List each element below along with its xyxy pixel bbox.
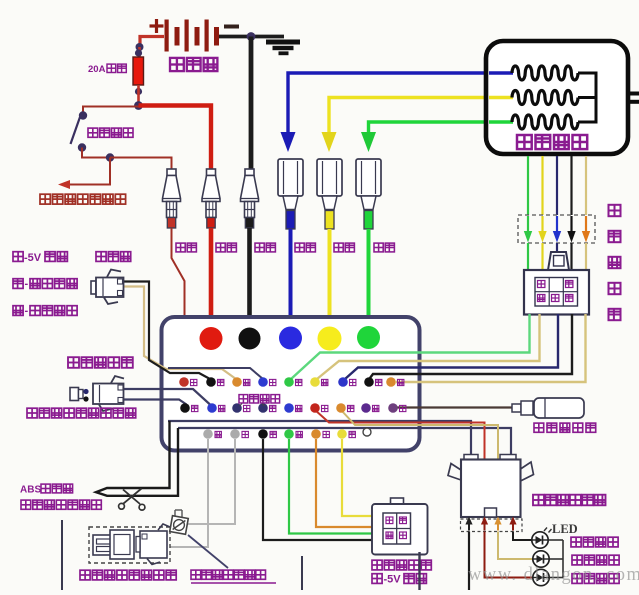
wire thick red J2 to controller bbox=[209, 228, 214, 330]
wire phase green bbox=[369, 122, 514, 133]
wire yellow row3 to 4pin bbox=[342, 439, 372, 516]
wire stray bottom-left bbox=[61, 520, 63, 590]
wire thick red to connector2 bbox=[139, 106, 212, 171]
wire phase blue bbox=[288, 73, 513, 133]
connector J4 blue spade bbox=[278, 159, 303, 196]
wire blue J4 to controller bbox=[289, 229, 293, 330]
battery pack cells bbox=[165, 20, 169, 52]
arrow phase blue bbox=[281, 132, 296, 152]
ground symbol bbox=[266, 40, 300, 45]
wire navy bus B to meter bbox=[178, 428, 511, 459]
label J1 细红 bbox=[176, 243, 185, 252]
svg-text:LED: LED bbox=[552, 522, 578, 536]
arrow meter power bbox=[58, 180, 70, 189]
connector assist 助力线 bbox=[91, 281, 96, 294]
switch lock top terminal bbox=[79, 111, 87, 119]
switch lock bottom terminal bbox=[78, 143, 86, 151]
connector 4-pin 调速刹车线 bbox=[391, 498, 404, 505]
node big yellow terminal bbox=[318, 327, 342, 351]
wire gray row3 pin2 down bbox=[188, 439, 235, 524]
motor winding common bracket bbox=[578, 73, 596, 122]
motor M1 case 无刷电机 bbox=[486, 41, 628, 154]
wire battery positive bbox=[140, 37, 164, 48]
label 调速刹车线 bbox=[372, 560, 382, 570]
meter pin arrow orange bbox=[497, 523, 499, 531]
node battery-negative junction bbox=[247, 32, 256, 41]
label 速度仪表线 bbox=[534, 423, 544, 432]
wire motor hall bundle bbox=[527, 156, 529, 215]
label 剪断为普通刹车 bbox=[21, 500, 31, 509]
wire green J6 to controller bbox=[367, 229, 371, 330]
connector J2 thick-red bullet bbox=[207, 169, 216, 176]
wire hall orange return bbox=[396, 314, 586, 382]
meter pin arrow darkred2 bbox=[512, 523, 514, 531]
wire meter darkred to LED3 bbox=[485, 532, 533, 578]
wire ABS select loop bbox=[96, 421, 178, 496]
speed-limit plug right bbox=[140, 531, 167, 558]
wire hall blue return bbox=[345, 314, 558, 379]
label 橙-5V电源 bottom bbox=[372, 574, 382, 584]
label 对插时为限速有效 bbox=[80, 570, 90, 580]
4-pin pin labels bbox=[386, 517, 393, 524]
wire node to connector1 bbox=[110, 158, 172, 171]
svg-text:20A: 20A bbox=[88, 64, 106, 75]
label 仪表显示接头 bbox=[533, 495, 544, 506]
fuse 20A top terminal bbox=[135, 49, 142, 56]
meter pin arrow black bbox=[468, 523, 470, 531]
arrow phase green bbox=[361, 132, 376, 152]
label battery 电池组 bbox=[170, 58, 184, 71]
wire blue-stub row1 bbox=[168, 368, 263, 379]
label J2 粗红 bbox=[216, 243, 225, 252]
controller pin row3 with labels bbox=[203, 429, 213, 439]
wire thin red J1 to controller bbox=[172, 228, 185, 378]
fuse 20A bottom terminal bbox=[135, 88, 142, 95]
wire LED link bbox=[549, 539, 564, 541]
hall plug dashed outline bbox=[518, 215, 595, 243]
label 蓝白双线 bbox=[239, 395, 248, 403]
speed-limit plug left bbox=[93, 535, 112, 555]
wire node to lock switch bbox=[83, 107, 139, 113]
wire fuse to node bbox=[137, 85, 140, 106]
node switch output junction bbox=[106, 153, 114, 161]
switch lock blade bbox=[71, 117, 81, 144]
hall plug pin arrows bbox=[527, 216, 529, 232]
svg-text:www. dlangon. com: www. dlangon. com bbox=[468, 565, 639, 585]
wire hall plug to connector bbox=[527, 243, 529, 270]
wire assist tan into controller bbox=[124, 287, 237, 380]
connector selector 选择键接头 bbox=[70, 388, 79, 401]
wire selector upper into controller bbox=[124, 389, 211, 405]
label motor 无刷电机 bbox=[517, 135, 532, 149]
meter pin dashed box bbox=[461, 519, 523, 532]
LED2 speed-3 bbox=[533, 551, 549, 567]
node big blue terminal bbox=[279, 327, 302, 350]
wire yellow J5 to controller bbox=[328, 229, 332, 330]
label vertical 霍尔信号线 bbox=[609, 205, 621, 216]
label 助力线 bbox=[96, 252, 106, 262]
connector J5 yellow spade bbox=[317, 159, 342, 196]
wire stray bottom-right bbox=[418, 552, 420, 590]
LED3 speed-2 bbox=[533, 569, 549, 585]
wire phase yellow bbox=[329, 98, 513, 134]
node big black terminal bbox=[239, 328, 261, 350]
label 黑-信号地线 bbox=[13, 306, 23, 316]
label 限速调节电位器 bbox=[191, 570, 201, 579]
controller pin row1 with labels bbox=[179, 377, 189, 387]
motor winding B bbox=[512, 91, 578, 105]
label meter power 仪表和车打电源 bbox=[40, 194, 50, 204]
wire hall green return bbox=[291, 314, 530, 379]
battery pack minus sign bbox=[224, 25, 239, 29]
wire phase green inside motor bbox=[489, 120, 513, 123]
wire node to meter-power arrow bbox=[70, 158, 110, 185]
label J3 粗黑 bbox=[255, 243, 264, 252]
label 速度三档 bbox=[572, 555, 582, 565]
label 蓝-助力信号 bbox=[13, 279, 23, 289]
meter connector right wing bbox=[521, 462, 534, 481]
svg-text:-5V: -5V bbox=[384, 574, 402, 586]
wire thick black J3 to controller bbox=[247, 228, 252, 330]
wire phase blue inside motor bbox=[489, 71, 513, 74]
wire assist black into controller bbox=[124, 282, 211, 380]
arrow phase yellow bbox=[322, 132, 337, 152]
wire thick black to connector3 bbox=[249, 37, 254, 171]
connector selector body bbox=[93, 384, 124, 405]
wire stray bottom-middle bbox=[301, 556, 303, 590]
wire brown bus to speed connector bbox=[396, 406, 512, 408]
svg-text:-5V: -5V bbox=[24, 252, 42, 264]
wire meter black to LED1 bbox=[513, 532, 532, 541]
wire khaki bus to meter bbox=[341, 410, 498, 459]
wire selector lower into controller bbox=[124, 400, 187, 405]
connector J1 thin-red bullet bbox=[167, 169, 176, 176]
fuse 20A body bbox=[133, 57, 144, 85]
label LED bbox=[544, 528, 547, 532]
svg-text:-: - bbox=[25, 305, 29, 317]
wire green row3 to 4pin bbox=[289, 439, 372, 534]
hall pin labels bbox=[538, 281, 545, 288]
label 选择键接头 bbox=[68, 357, 79, 368]
node big red terminal bbox=[200, 327, 223, 350]
node battery-positive junction bbox=[136, 43, 144, 51]
LED1 charge indicator bbox=[532, 532, 548, 548]
controller pin row2 with labels bbox=[180, 403, 190, 413]
label 橙-5V电源 bbox=[13, 252, 23, 262]
node fuse output junction bbox=[134, 101, 143, 110]
meter connector left wing bbox=[448, 464, 461, 481]
motor shaft stubs bbox=[628, 92, 639, 96]
meter pin arrow darkred bbox=[484, 523, 486, 531]
label J4 粗蓝 bbox=[295, 243, 304, 252]
label J5 粗黄 bbox=[334, 243, 343, 252]
wire hall yellow return bbox=[317, 314, 540, 379]
controller box bbox=[162, 317, 420, 451]
wire phase yellow inside motor bbox=[489, 96, 513, 99]
connector J3 thick-black bullet bbox=[245, 169, 254, 176]
wire orange row3 to 4pin bbox=[316, 439, 372, 527]
connector hall 6-pin body bbox=[548, 252, 569, 270]
scissors bbox=[124, 489, 142, 504]
node big green terminal bbox=[357, 326, 380, 349]
svg-text:ABS: ABS bbox=[20, 485, 41, 496]
potentiometer symbol bbox=[175, 509, 182, 511]
wire gray row3 pin1 down bbox=[170, 439, 208, 547]
wire black row3 to 4pin bbox=[263, 439, 372, 540]
label 充电指示 bbox=[571, 537, 581, 547]
label 速度二档 bbox=[572, 574, 582, 584]
wire battery negative bbox=[219, 35, 284, 39]
connector J6 green spade bbox=[356, 159, 381, 196]
speed-limit dashed box bbox=[89, 527, 170, 563]
connector speed cable 速度仪表线 bbox=[512, 404, 521, 412]
wire navy bus A to meter bbox=[168, 421, 471, 459]
connector hall pin grid bbox=[535, 278, 578, 307]
label J6 粗绿 bbox=[374, 243, 383, 252]
wire hall black return bbox=[370, 314, 572, 378]
motor winding A bbox=[512, 66, 578, 80]
node spare white pin bbox=[363, 428, 371, 436]
pointer to potentiometer bbox=[188, 535, 228, 568]
selector contact dots bbox=[83, 389, 88, 394]
label lock switch 电锁开关 bbox=[88, 128, 98, 137]
label 接转把上的按键开关 bbox=[27, 408, 37, 418]
svg-text:-: - bbox=[25, 278, 29, 290]
wire switch to node bbox=[82, 148, 107, 158]
meter connector bottom notch bbox=[485, 508, 497, 517]
battery pack plus sign bbox=[150, 24, 164, 27]
connector meter display body bbox=[464, 455, 478, 461]
wire meter black down bbox=[468, 532, 470, 591]
wire meter khaki to LED2 bbox=[498, 532, 533, 560]
wire node to fuse bbox=[138, 47, 141, 58]
motor winding C bbox=[512, 115, 578, 129]
wire red bus to meter bbox=[315, 410, 485, 459]
